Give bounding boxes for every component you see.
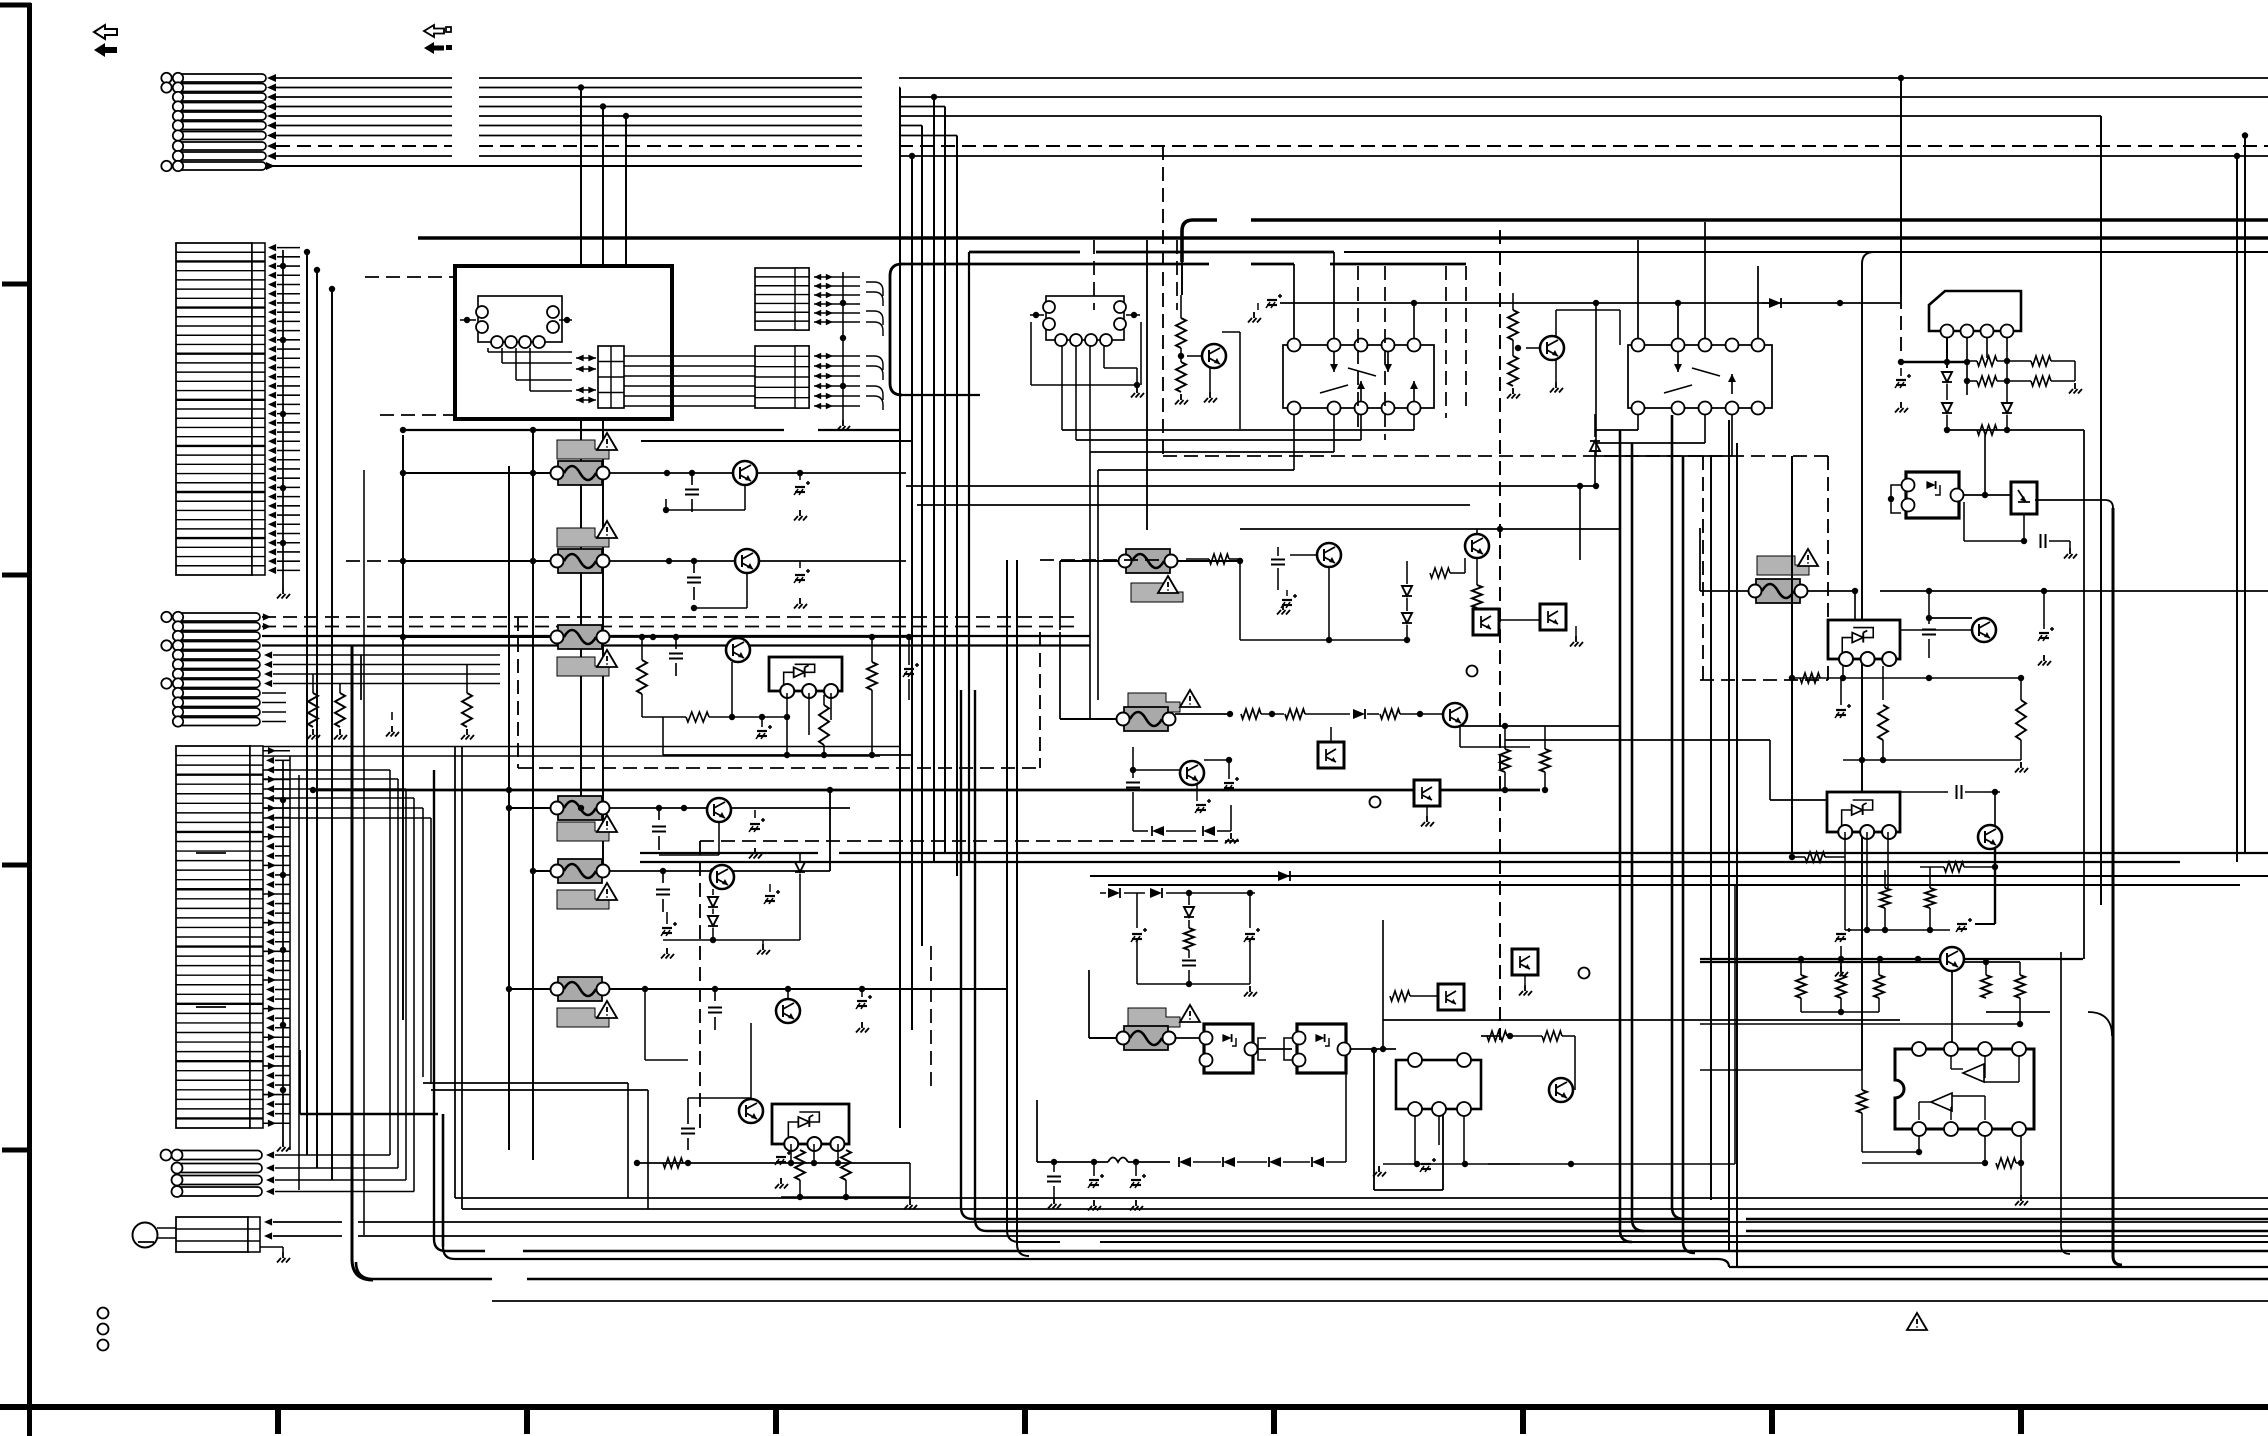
fuse F5 — [551, 859, 610, 883]
diode D19 — [1184, 893, 1194, 928]
diode D17 — [1100, 888, 1145, 898]
wire F3 feed — [400, 634, 551, 640]
wire Q18 emitter thick — [1956, 849, 1995, 932]
ground lamp connector — [260, 1247, 290, 1263]
diode D22 — [1269, 1157, 1310, 1167]
wire vertical x403 — [402, 435, 404, 1020]
diode D11 — [1590, 414, 1600, 486]
wire y430 horizontal — [400, 427, 901, 433]
cap-gnd VR3 — [1835, 678, 1851, 718]
connector CN-A 10-pin — [161, 73, 266, 171]
wire F4 feed — [506, 787, 584, 811]
resistor R48 — [1880, 870, 1890, 930]
capacitor C21 — [1271, 547, 1285, 590]
cap-gnd C2 — [794, 470, 810, 521]
fuse F8 — [1117, 707, 1176, 731]
cap-gnd C25 — [1195, 785, 1211, 813]
fuse F10 — [1749, 579, 1808, 603]
diode D15 — [1133, 810, 1196, 836]
wire verticals mid x975 — [974, 690, 976, 1219]
resistor R43 — [2031, 376, 2082, 394]
opto PC3 — [1318, 727, 1344, 768]
switch block outline — [455, 266, 672, 419]
wire VR3 bottom bus — [1843, 757, 2028, 773]
resistor R49 — [1925, 867, 1935, 933]
dashed stubs CN-B — [346, 277, 460, 561]
thick bus y220 — [1182, 220, 2268, 295]
transistor Q17 — [1972, 618, 1996, 642]
vreg VR4 — [1827, 792, 1900, 839]
frame tick left y284 — [2, 282, 29, 287]
capacitor C1 — [685, 473, 699, 512]
wire stubs from CN-B — [268, 244, 300, 574]
wire VR2 bottom bus — [634, 1160, 910, 1166]
zeners D12 D13 — [1402, 561, 1412, 640]
fuse F3 — [551, 625, 610, 649]
bidirectional arrows in switch block — [576, 355, 596, 404]
wire VR1 base row — [642, 712, 787, 722]
capacitor C34 — [1922, 620, 1936, 658]
wire VR4 top — [1505, 740, 1827, 800]
wire U5 pin7 — [1862, 1136, 1988, 1166]
capacitor C3 — [687, 561, 701, 600]
capacitor C27 — [1182, 961, 1196, 985]
wire x533 long vertical — [532, 430, 534, 1160]
wire verticals mid x1017 — [1016, 560, 1018, 1244]
fuse F4 — [551, 796, 610, 820]
cap-gnd C4 — [794, 561, 810, 609]
wires IC to connector in switch block — [488, 348, 572, 391]
connector inside switch block — [598, 346, 624, 408]
wire F8 out — [1175, 711, 1233, 717]
resistor R51 — [1996, 1136, 2024, 1168]
warning label F4 — [557, 815, 617, 841]
connector block CN-F lower — [755, 346, 809, 408]
wire RL2 bottom drops — [1596, 415, 1732, 456]
cap-gnd C24 — [1204, 757, 1239, 791]
transistor Q6 — [776, 986, 800, 1023]
frame bottom tick 3 — [773, 1407, 779, 1434]
wires from CN-C — [262, 613, 1090, 721]
frame bottom rule — [0, 1404, 2268, 1410]
capacitor C7 — [652, 808, 666, 850]
resistor R21 — [1175, 356, 1188, 405]
warning label F2 — [557, 521, 617, 547]
transistor Q13 — [1290, 543, 1341, 567]
frame tick left y1150 — [2, 1148, 29, 1153]
resistor R26 — [1472, 558, 1482, 608]
wire long vertical x1729 — [1728, 420, 1730, 1252]
bottom bus 4 — [975, 1219, 2268, 1231]
wire vertical drop x581 — [578, 84, 584, 808]
wire F8 feed vertical — [1059, 632, 1061, 719]
resistor R47 — [1920, 862, 1998, 872]
transistor Q12 — [1465, 529, 1489, 558]
wire U3 bottom loop — [1371, 1047, 1443, 1190]
wire vertical x317 — [314, 267, 320, 1168]
dashed stubs above relay RL1 — [1094, 240, 1177, 310]
bottom bus 3 — [961, 1207, 2268, 1219]
fuse F6 — [551, 977, 610, 1001]
cap-gnd C8 — [749, 810, 765, 859]
wire F10 out — [1807, 588, 1858, 594]
resistor R24 — [1186, 554, 1242, 564]
diode D14 — [1353, 709, 1379, 719]
wire F1 out — [609, 470, 906, 476]
wire vertical x957 — [956, 136, 958, 877]
resistor R40 — [1967, 356, 2031, 366]
wire U4 bottom — [1944, 427, 2010, 433]
page frame corner tick top-left — [0, 3, 31, 1436]
wire thick y790 — [310, 787, 1540, 793]
wire PC7-PB1 — [1964, 435, 2011, 498]
frame bottom tick 2 — [524, 1407, 530, 1434]
diode D21 — [1223, 1157, 1267, 1167]
ground CN-F — [837, 272, 850, 431]
wire x1037 up — [1036, 1100, 1038, 1162]
wire y1024 — [1700, 998, 2023, 1027]
wire VR3 top — [1854, 591, 1856, 620]
thick vertical x1632 — [1632, 443, 1644, 1231]
wire x1580 drop — [1579, 486, 1581, 560]
frame tick left y575 — [2, 573, 29, 578]
dashed rect left — [518, 617, 1040, 768]
bottom bus 5 — [1007, 1230, 2268, 1242]
wire VR1 pins — [784, 693, 831, 758]
ground U3 — [1373, 1158, 1520, 1177]
cap-gnd C6 — [756, 714, 772, 739]
warning label F6 — [557, 1001, 617, 1027]
wires from lamp connector — [264, 1218, 2268, 1239]
wire F9 feed — [1089, 970, 1117, 1038]
IC U5 dual op-amp — [1895, 1042, 2034, 1136]
wire drop x361 — [360, 655, 362, 700]
resistor R45 — [2016, 681, 2026, 760]
cap-gnd C10 — [661, 912, 677, 959]
photo-diode box PB1 — [2011, 482, 2037, 514]
resistor R50a — [1796, 956, 1806, 998]
wire verticals mid x1007 — [1006, 560, 1008, 1230]
relay RL1 — [1283, 339, 1434, 415]
dashed vertical x1828 — [1827, 456, 1829, 680]
wires from CN-E — [266, 1151, 414, 1195]
transistor Q3 — [726, 638, 750, 662]
dashed bus y456 — [1163, 455, 1828, 457]
resistor R20 — [1176, 295, 1186, 359]
diode D24 — [1942, 372, 1952, 400]
connector block CN-F upper — [755, 268, 809, 330]
transistor Q15 — [1130, 761, 1204, 785]
wire vertical drop x1901 — [1898, 75, 1904, 355]
bus y252 — [969, 252, 2268, 862]
wire F5 feed — [530, 868, 551, 874]
wire CP2 up — [1382, 920, 1384, 1020]
resistor R42 — [1964, 376, 2031, 386]
connector CN-C 12-pin — [161, 612, 260, 727]
wire y1012 — [1801, 998, 1879, 1015]
main bus y885 — [1108, 884, 2240, 886]
pulldown resistors under CN-C — [307, 665, 474, 740]
resistor R35 — [1184, 928, 1194, 958]
wire corner x2245 — [2242, 132, 2248, 853]
wire vertical x332 — [329, 286, 335, 1180]
main bus y876 — [1090, 871, 2268, 881]
wire y529 — [1240, 526, 1620, 532]
opto PC1 — [1473, 609, 1499, 635]
reference arrow filled w/ square — [424, 42, 452, 54]
wire VR2 gnd bus — [781, 1163, 917, 1210]
bottom bus 6b — [443, 1114, 2268, 1267]
wire U3 pins down — [1415, 885, 1735, 1167]
transistor Q10 — [1187, 332, 1240, 429]
resistor R30 — [1241, 709, 1284, 719]
wire under Q5 — [663, 937, 800, 955]
diode D20 — [1179, 1157, 1221, 1167]
wire bundle y428-462 — [1062, 430, 1414, 640]
fuse F2 — [551, 549, 610, 573]
wire PB1 bottom — [2021, 514, 2027, 544]
reference arrow open — [94, 25, 117, 39]
resistor R32 — [1380, 709, 1443, 719]
warning label F10 — [1757, 549, 1818, 575]
test point TP3 — [1579, 968, 1590, 979]
cap-gnd C31 — [1130, 1162, 1146, 1211]
dashed drops to relay RL1 — [1358, 266, 1466, 440]
wire x509 long vertical — [508, 466, 510, 1150]
resistor R25 — [1430, 558, 1465, 578]
wire q13 down — [1240, 561, 1410, 643]
wire F8 feed — [1060, 718, 1117, 720]
relay RL2 — [1628, 339, 1772, 415]
bottom bus 7 — [356, 1262, 2268, 1279]
transistor Q4 — [707, 798, 731, 822]
resistor R13 — [663, 1158, 683, 1168]
main bus y862 — [640, 861, 2180, 863]
wire CN-D tail b — [431, 1090, 648, 1209]
wire LC chain — [1037, 1159, 1170, 1165]
cap-gnd C32 — [1895, 368, 1911, 413]
wire CN-D long row — [263, 747, 900, 757]
wire Q2 emitter — [691, 573, 747, 611]
bottom bus 8 — [492, 1300, 2268, 1302]
wire VR3 row y678 — [1789, 673, 2024, 683]
bottom bus 2 — [462, 746, 2268, 1209]
wire sub x1137 — [1136, 893, 1138, 928]
ground PC4 — [1421, 806, 1434, 827]
resistor R34 — [1540, 726, 1550, 793]
transistor Q2 — [735, 549, 759, 573]
opto PC2 — [1499, 604, 1566, 630]
wire CP2 out — [1351, 1020, 1900, 1052]
resistor R50c — [1874, 959, 1884, 998]
capacitor C14 — [681, 1098, 695, 1150]
dashed h y680 — [1700, 679, 1828, 681]
test point TP2 — [1370, 797, 1381, 808]
warning triangle bottom right — [1907, 1313, 1927, 1330]
reference arrow open w/ square — [424, 25, 451, 37]
main bus y853 — [640, 852, 2268, 854]
resistor R52 — [1700, 1070, 1867, 1152]
frame bottom tick 8 — [2018, 1407, 2024, 1434]
wires from U2 — [1031, 322, 1144, 452]
wire F4 out — [609, 805, 850, 811]
IC U3 (photo-relay) — [1396, 1053, 1481, 1116]
frame bottom tick 4 — [1022, 1407, 1028, 1434]
wire CN-D tail thick — [300, 1050, 438, 1114]
transistor Q7 — [739, 1099, 763, 1123]
cap-gnd C22 — [1277, 590, 1297, 615]
cap-gnd C35 — [2038, 588, 2268, 666]
wire Q1 emitter — [663, 485, 745, 513]
frame bottom tick 5 — [1271, 1407, 1277, 1434]
transistor Q5 — [710, 865, 734, 889]
wire y303 right — [1280, 300, 1901, 306]
resistor R44 — [1977, 425, 2084, 959]
wire y497 — [917, 504, 1470, 506]
opto PC7 big — [1902, 472, 1964, 518]
wire vertical x912 — [909, 153, 915, 1030]
wire waterfall CN-D to CN-E — [263, 770, 414, 1192]
wire VR4 pins — [1845, 832, 1888, 930]
resistor R11b — [819, 695, 829, 758]
wire y1020 right — [1986, 1012, 2112, 1036]
wire stubs from CN-D — [263, 747, 290, 1127]
warning label F3 — [557, 650, 617, 676]
fuse F9 — [1117, 1026, 1176, 1050]
wire F7 out — [1177, 558, 1243, 564]
test point TP1 — [1467, 666, 1478, 677]
connector CN-E 4-pin — [161, 1150, 263, 1198]
diode D18 — [1150, 888, 1255, 898]
resistor R33 — [1500, 723, 1510, 793]
zener D1 — [708, 889, 718, 940]
frame bottom tick 7 — [1769, 1407, 1775, 1434]
thick vertical x1620 — [1620, 430, 1632, 1242]
wire hook x890 — [890, 264, 980, 395]
cap-gnd C13 — [856, 986, 872, 1033]
diode D16 — [1203, 805, 1238, 844]
wire y486 — [906, 483, 1599, 489]
vreg VR2 — [772, 1104, 849, 1151]
wire vertical x922 — [921, 126, 923, 947]
diode D26 — [2002, 352, 2012, 430]
wire Q6-Q7 — [645, 989, 751, 1099]
wire VR3 pins — [1840, 666, 1883, 763]
warning label F5 — [557, 883, 617, 909]
frame tick left y865 — [2, 863, 29, 868]
wire U5 inner2 — [1919, 1096, 1985, 1120]
connector CN-B 36-pin — [176, 243, 265, 575]
resistor R50e — [2015, 962, 2025, 998]
cap-gnd C26 — [1131, 928, 1147, 955]
wire Q18 collector — [1992, 789, 1998, 825]
wire drop x1862 — [1862, 252, 1874, 1070]
wire VR1 bottom bus — [663, 717, 912, 755]
wire F3 out — [609, 634, 906, 640]
diode D25 — [1942, 403, 1952, 430]
cap-gnd C28 — [1244, 893, 1260, 984]
coupler CP1 — [1200, 1024, 1258, 1073]
resistor R10 — [637, 634, 647, 717]
wire U5 pin8 left — [1862, 1136, 1922, 1155]
wire drop x352 thick — [352, 646, 373, 1281]
resistor R11 — [867, 634, 877, 758]
wire vertical x945 — [944, 107, 946, 854]
wire bus y959 — [1700, 956, 2083, 962]
wire rail x1792 — [1791, 456, 1793, 857]
frame bottom tick 1 — [275, 1407, 281, 1434]
wire F2 feed — [400, 558, 551, 564]
wire U4 pins — [1947, 338, 2007, 395]
ground Q11 — [1550, 360, 1563, 393]
transistor Q11 — [1515, 336, 1564, 360]
wire relay1 bottom drops — [1294, 415, 1414, 470]
resistor R14 — [795, 1150, 805, 1197]
wire opamp area — [1481, 1031, 1575, 1090]
transistor Q16 — [1549, 1078, 1573, 1102]
frame bottom tick 6 — [1520, 1407, 1526, 1434]
wire CN-D tail a — [423, 1083, 628, 1198]
wire verticals mid x961 — [960, 690, 962, 1207]
capacitor C33 — [1964, 502, 2077, 559]
wire long vertical x1711 — [1710, 456, 1712, 1200]
wire y441 horizontal — [641, 440, 912, 442]
capacitor C5 — [669, 637, 683, 676]
warning label F8 — [1128, 690, 1200, 712]
capacitor C36 — [1900, 785, 2000, 799]
wire sub bottom — [1137, 955, 1257, 997]
wire vertical drop x603 — [600, 103, 606, 871]
wire y962 thick — [1700, 961, 1940, 963]
ground under CN-D — [277, 760, 290, 1152]
dashed rect center bottom — [700, 841, 1240, 1128]
IC inside switch block — [460, 296, 572, 348]
coupler CP2 — [1293, 1024, 1351, 1073]
fuse F1 — [551, 461, 610, 485]
resistor R50b — [1836, 956, 1846, 998]
wire vertical drop x2101 — [2100, 116, 2102, 905]
wire PC7 loop — [1888, 485, 1901, 513]
capacitor C29 — [1047, 1162, 1061, 1209]
ground under CN-B — [277, 250, 290, 599]
wire U5 inner1 — [1951, 1056, 2019, 1082]
vreg VR1 — [769, 657, 842, 698]
reference arrow filled — [94, 43, 117, 57]
resistor R31 — [1285, 709, 1350, 719]
connector CN-D 40-pin — [176, 746, 263, 1128]
resistor R15 — [841, 1150, 851, 1197]
wire PC4 right — [1440, 789, 1540, 791]
wire VR2 pins — [788, 1144, 841, 1166]
ground PC2 — [1570, 626, 1583, 647]
wire vertical x1147 — [1146, 240, 1148, 530]
wire vertical x307 — [304, 249, 310, 1155]
vreg VR3 — [1828, 620, 1900, 666]
transistor Q14 — [1443, 703, 1467, 727]
wire waterfall tails — [263, 808, 431, 1084]
cap-gnd C6b — [903, 634, 919, 700]
wire Q3 emitter — [731, 662, 733, 717]
wire F6 out — [609, 986, 1007, 992]
resistor R46 — [1789, 852, 1845, 862]
wire verticals right of CN-D — [290, 756, 299, 1190]
wire x1596 drop — [1595, 303, 1597, 430]
dashed vertical x1703 — [1702, 456, 1704, 680]
opto PC5 — [1438, 984, 1464, 1010]
wire corner x2237 — [2234, 153, 2240, 862]
wire bus from CN-A — [266, 74, 2268, 170]
wire F2 out — [609, 558, 906, 564]
